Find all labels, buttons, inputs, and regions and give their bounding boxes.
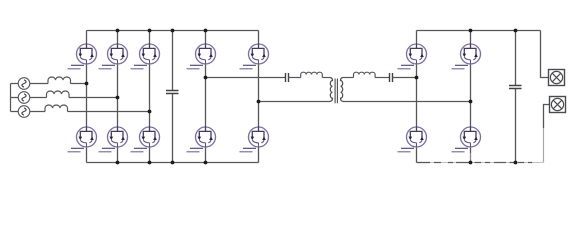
inductor L3 — [45, 105, 68, 112]
node top bus leg4 — [204, 29, 208, 33]
node top bus leg2 — [116, 29, 120, 33]
wire resonant top (primary) — [206, 77, 286, 79]
wire resonant bottom (secondary) — [343, 101, 470, 103]
wire leg 3 (rectifier) — [149, 31, 151, 163]
wire DC-link branch — [172, 31, 174, 163]
capacitor C1 (DC link) — [166, 91, 179, 94]
wire resonant bottom (primary) — [259, 101, 330, 103]
wire phase A — [11, 83, 87, 85]
wire leg 5 (H-bridge 1 right) — [258, 31, 260, 163]
node top bus leg7 — [469, 29, 473, 33]
MOSFET Q7 — [187, 44, 216, 69]
wire leg 1 (rectifier) — [86, 31, 88, 163]
node phase B / leg2 — [116, 96, 120, 100]
wire leg 2 (rectifier) — [117, 31, 119, 163]
MOSFET Q12 — [452, 44, 481, 69]
wire Lr2 to Cr2 — [375, 77, 389, 79]
node H1 right midpoint — [257, 100, 261, 104]
wire output cap branch — [515, 31, 517, 163]
MOSFET Q9 — [187, 127, 216, 152]
wire leg 6 (H-bridge 2 left) — [416, 31, 418, 163]
top DC bus wire (primary) — [87, 30, 259, 32]
wire leg 4 (H-bridge 1 left) — [205, 31, 207, 163]
capacitor Cr2 (series resonant secondary) — [390, 73, 393, 82]
node top bus C1 — [171, 29, 175, 33]
inductor Lr2 (resonant secondary) — [354, 72, 376, 77]
MOSFET Q13 — [398, 127, 427, 152]
MOSFET Q1 — [68, 44, 97, 69]
terminal J1 — [549, 70, 565, 86]
node phase A / leg1 — [85, 82, 89, 86]
transformer T1 core — [335, 79, 337, 104]
wire fade overlay on leg7 bottom — [468, 153, 473, 161]
MOSFET Q2 — [99, 44, 128, 69]
bottom DC bus wire (secondary, watermark-faded part) — [430, 162, 544, 164]
wire Cr2 to H-bridge 2 — [393, 77, 417, 79]
node bottom bus leg4 — [204, 161, 208, 165]
transformer T1 primary winding — [330, 78, 333, 102]
node H2 right midpoint — [469, 100, 473, 104]
capacitor Cr1 (series resonant) — [286, 73, 289, 82]
node H1 left midpoint — [204, 76, 208, 80]
wire phase B — [11, 97, 118, 99]
wire phase C — [11, 111, 150, 113]
node top bus C2 — [514, 29, 518, 33]
wire leg 7 (H-bridge 2 right) — [470, 31, 472, 163]
wire to output terminal - — [544, 105, 550, 129]
AC source V2 — [18, 92, 30, 104]
wire to output terminal + — [541, 31, 549, 78]
node phase C / leg3 — [148, 110, 152, 114]
wire Cr1 to Lr1 — [289, 77, 301, 79]
capacitor C2 (output filter) — [509, 86, 522, 89]
bottom DC bus wire (secondary, solid part) — [417, 162, 431, 164]
bottom DC bus wire (primary) — [87, 162, 259, 164]
terminal J2 — [550, 97, 566, 113]
node bottom bus C1 — [171, 161, 175, 165]
AC source V1 — [18, 78, 30, 90]
wire transformer to Lr2 — [343, 77, 354, 79]
inductor L1 — [48, 77, 71, 84]
top DC bus wire (secondary) — [417, 30, 541, 32]
MOSFET Q6 — [131, 127, 160, 152]
wire Lr1 to transformer — [322, 77, 330, 79]
left neutral bus wire — [10, 84, 12, 112]
inductor Lr1 (resonant) — [301, 72, 323, 77]
node H2 left midpoint — [415, 76, 419, 80]
node bottom bus leg7 — [469, 161, 473, 165]
AC source V3 — [18, 106, 30, 118]
MOSFET Q4 — [68, 127, 97, 152]
node top bus leg3 — [148, 29, 152, 33]
MOSFET Q8 — [240, 44, 269, 69]
MOSFET Q11 — [398, 44, 427, 69]
inductor L2 — [47, 91, 70, 98]
MOSFET Q5 — [99, 127, 128, 152]
MOSFET Q3 — [131, 44, 160, 69]
MOSFET Q14 — [452, 127, 481, 152]
node bottom bus leg2 — [116, 161, 120, 165]
node bottom bus C2 — [514, 161, 518, 165]
transformer T1 secondary winding — [341, 78, 344, 102]
MOSFET Q10 — [240, 127, 269, 152]
node bottom bus leg3 — [148, 161, 152, 165]
